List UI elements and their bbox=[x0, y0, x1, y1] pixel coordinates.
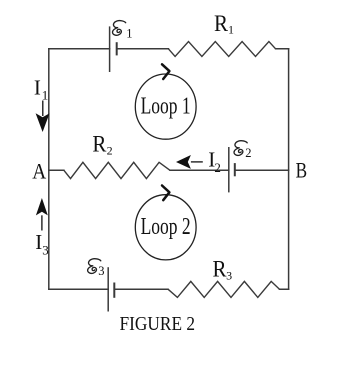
svg-text:3: 3 bbox=[98, 264, 104, 278]
svg-text:I: I bbox=[35, 230, 42, 254]
svg-text:3: 3 bbox=[42, 242, 49, 257]
svg-text:R: R bbox=[92, 131, 106, 157]
svg-text:I: I bbox=[34, 76, 41, 100]
svg-text:Loop 1: Loop 1 bbox=[141, 94, 191, 120]
svg-text:2: 2 bbox=[214, 160, 221, 175]
svg-text:R: R bbox=[214, 11, 228, 37]
svg-text:1: 1 bbox=[228, 22, 234, 36]
svg-text:FIGURE 2: FIGURE 2 bbox=[120, 314, 196, 335]
svg-text:2: 2 bbox=[107, 144, 113, 158]
svg-text:A: A bbox=[32, 159, 46, 184]
svg-text:1: 1 bbox=[126, 27, 132, 41]
svg-text:R: R bbox=[213, 256, 227, 282]
svg-text:1: 1 bbox=[42, 87, 49, 102]
svg-text:Loop 2: Loop 2 bbox=[141, 214, 191, 240]
svg-text:B: B bbox=[296, 158, 308, 183]
svg-text:3: 3 bbox=[226, 269, 232, 283]
svg-text:2: 2 bbox=[245, 146, 251, 160]
